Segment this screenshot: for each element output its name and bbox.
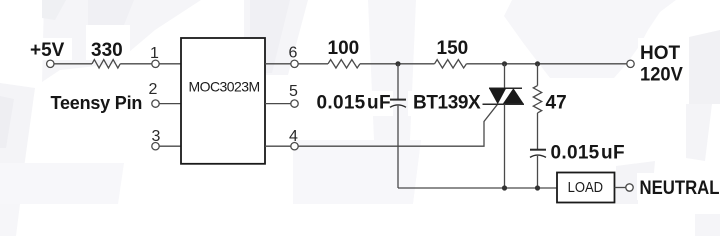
wire bottom rail [398, 187, 557, 189]
triac Q1 BT139X [483, 64, 525, 188]
watermark bar bottom-left [0, 163, 124, 204]
pin 5 terminal circle [291, 100, 298, 107]
svg-text:LOAD: LOAD [568, 179, 604, 196]
watermark wash top-left [42, 0, 201, 82]
wire C1 down to bottom rail [397, 106, 399, 188]
pin 4 terminal circle [291, 143, 298, 150]
svg-text:5: 5 [289, 83, 298, 100]
pin number 3 [152, 128, 161, 145]
svg-text:3: 3 [152, 128, 161, 145]
resistor R 100 [328, 60, 360, 68]
svg-text:150: 150 [437, 38, 469, 59]
value label 100 [328, 38, 360, 59]
watermark top-left corner stroke [42, 0, 66, 20]
capacitor C1 0.015uF [390, 100, 406, 108]
wire R47 to C2 [537, 113, 539, 149]
resistor R 330 [92, 60, 120, 68]
resistor R 47 (vertical) [533, 86, 541, 113]
label Teensy Pin [51, 93, 143, 113]
node E junction dot (snubber to rail) [535, 185, 540, 190]
svg-text:4: 4 [289, 128, 298, 145]
pin 3 terminal circle [152, 143, 159, 150]
watermark mid block [293, 140, 421, 204]
label MOC3023M [189, 78, 260, 94]
pin 2 terminal circle [152, 100, 159, 107]
pin number 5 [289, 83, 298, 100]
svg-text:NEUTRAL: NEUTRAL [640, 178, 720, 199]
svg-text:120V: 120V [640, 65, 683, 86]
terminal HOT [627, 60, 634, 67]
value label 0.015uF (snubber) [551, 143, 625, 164]
watermark big wash top-right [504, 0, 676, 78]
watermark right edge band [689, 30, 720, 104]
svg-text:BT139X: BT139X [413, 93, 481, 114]
watermark right stem [686, 104, 712, 161]
value label 0.015uF [317, 93, 391, 114]
watermark mid stem [368, 0, 416, 140]
watermark column bottom-left [0, 204, 20, 236]
label BT139X [413, 93, 481, 114]
watermark band above IC core [250, 0, 290, 73]
wire R100 to node A [360, 63, 435, 65]
svg-text:0.015uF: 0.015uF [551, 143, 625, 164]
wire pin1 stub to IC [159, 63, 181, 65]
pin number 1 [150, 45, 159, 62]
svg-text:+5V: +5V [30, 40, 65, 61]
label +5V [30, 40, 65, 61]
svg-text:330: 330 [91, 40, 123, 61]
wire load to NEUTRAL [615, 187, 626, 189]
watermark band upper-left [88, 0, 134, 60]
wire pin6 to R100 [298, 63, 328, 65]
pin number 2 [149, 81, 158, 98]
wire +5V to R1 [54, 63, 92, 65]
pin 1 terminal circle [152, 60, 159, 67]
pin number 4 [289, 128, 298, 145]
wire pin3 stub to IC [159, 145, 181, 147]
white label boxes [27, 25, 720, 200]
svg-text:6: 6 [289, 45, 298, 62]
watermark bottom-right corner patch [695, 214, 720, 236]
svg-text:0.015uF: 0.015uF [317, 93, 391, 114]
wire R150 to HOT [467, 63, 627, 65]
label NEUTRAL [640, 178, 720, 199]
wire pin2 stub to IC [159, 103, 181, 105]
node A junction dot [395, 61, 400, 66]
wire node C down to R47 [537, 64, 539, 86]
watermark stem left edge [0, 83, 35, 168]
value label 47 [546, 93, 567, 114]
svg-text:Teensy Pin: Teensy Pin [51, 93, 143, 113]
wire R330 to pin 1 [120, 63, 152, 65]
label LOAD [568, 179, 604, 196]
svg-text:47: 47 [546, 93, 567, 114]
label 120V [640, 65, 683, 86]
svg-text:MOC3023M: MOC3023M [189, 78, 260, 94]
svg-text:HOT: HOT [640, 43, 681, 64]
svg-text:1: 1 [150, 45, 159, 62]
watermark wash above IC [244, 0, 308, 75]
watermark stem core left edge [0, 96, 14, 148]
wire pin6 stub from IC [265, 63, 291, 65]
load box [557, 173, 615, 203]
wire pin4 to triac gate [298, 104, 497, 146]
watermark wash around neutral [616, 161, 655, 197]
terminal +5V [47, 60, 54, 67]
wire C2 down to bottom rail [537, 156, 539, 188]
svg-text:100: 100 [328, 38, 360, 59]
svg-text:2: 2 [149, 81, 158, 98]
value label 150 [437, 38, 469, 59]
terminal NEUTRAL [626, 184, 633, 191]
wire node A down to C1 [397, 64, 399, 99]
op-isolator U1 MOC3023M box [181, 38, 265, 164]
wire pin5 stub to IC [265, 103, 291, 105]
watermark tab right of load [616, 197, 638, 204]
pin 6 terminal circle [291, 60, 298, 67]
label HOT [640, 43, 681, 64]
pin number 6 [289, 45, 298, 62]
node B junction dot (triac MT2) [502, 61, 507, 66]
wire pin4 stub from IC [265, 145, 291, 147]
capacitor C2 0.015uF [530, 150, 546, 158]
resistor R 150 [435, 60, 467, 68]
node D junction dot (triac MT1 to rail) [502, 185, 507, 190]
value label 330 [91, 40, 123, 61]
node C junction dot (snubber branch) [535, 61, 540, 66]
